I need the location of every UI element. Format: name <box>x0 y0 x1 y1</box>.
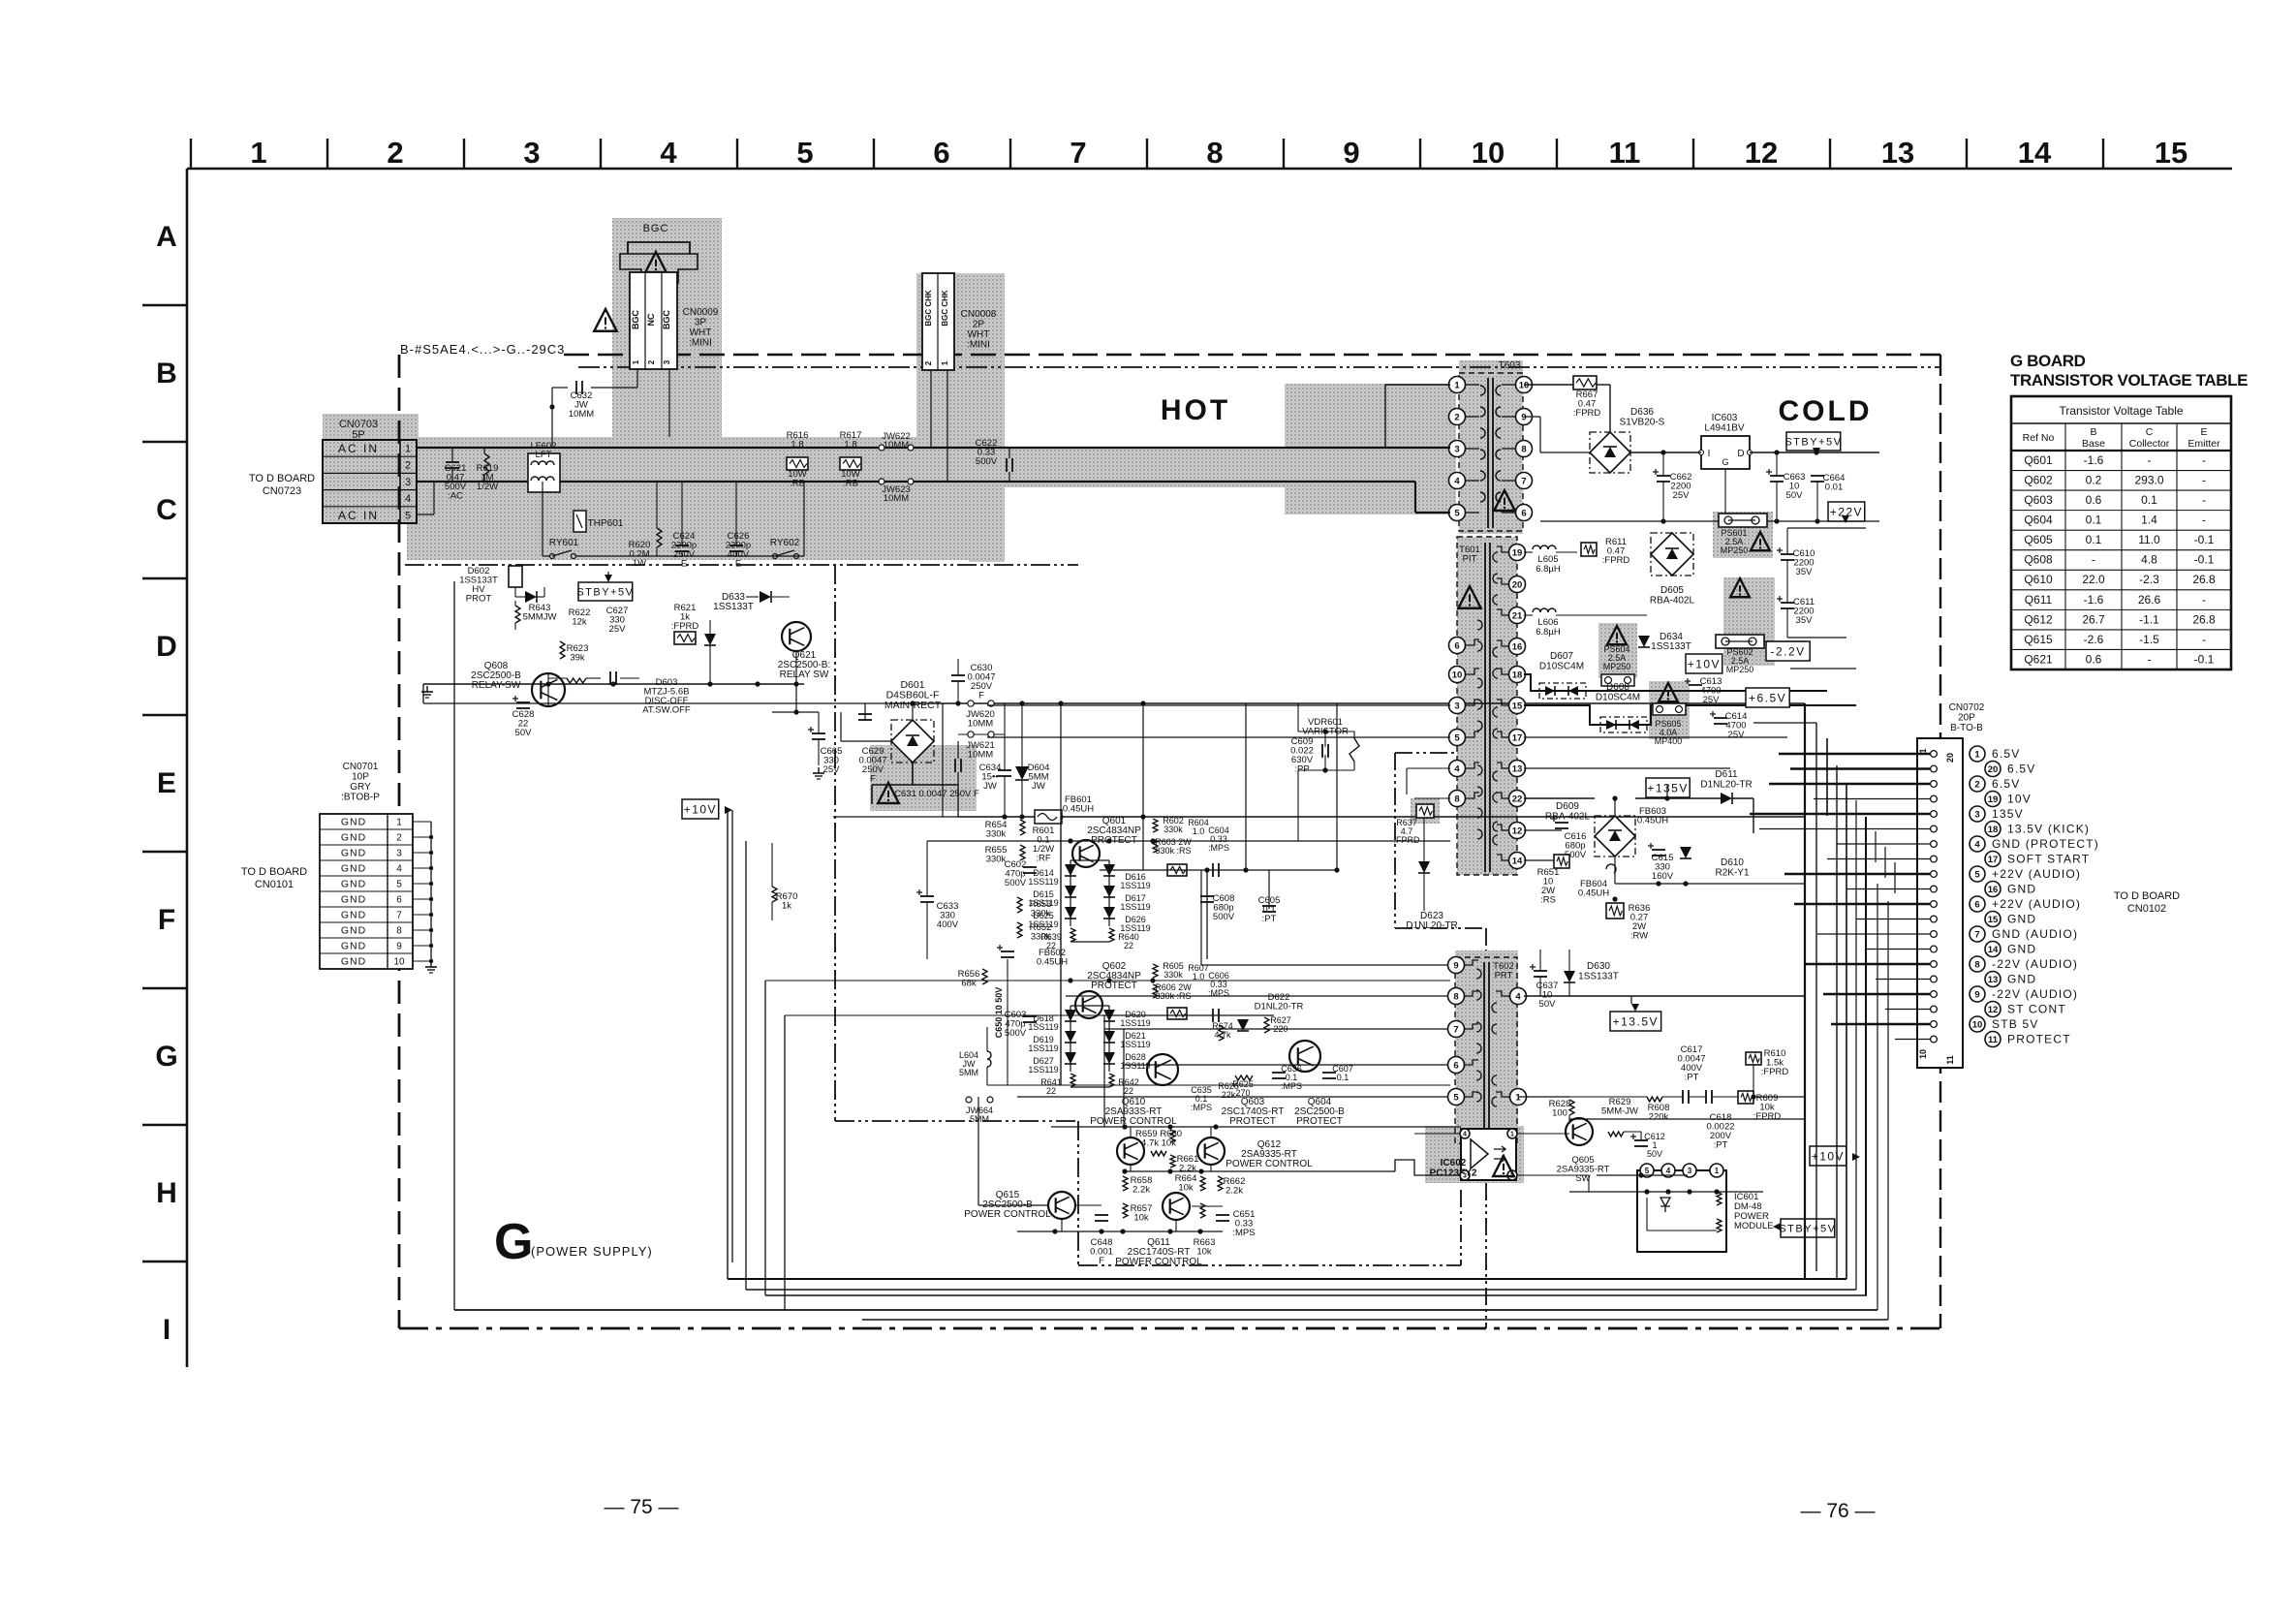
pin T601-16 <box>1509 639 1526 655</box>
warning triangle T603 <box>1494 490 1515 511</box>
svg-text:L6056.8µH: L6056.8µH <box>1536 554 1561 575</box>
svg-text:10V: 10V <box>2007 793 2032 806</box>
resistor R639 <box>1070 928 1075 942</box>
fuse PS602 <box>1716 635 1764 648</box>
svg-text:16: 16 <box>1988 885 1999 895</box>
capacitor C621 <box>446 461 459 463</box>
svg-text:10: 10 <box>1519 380 1530 390</box>
svg-text:Q610: Q610 <box>2024 573 2053 586</box>
voltage +10V bottom right <box>1810 1146 1846 1166</box>
svg-text:20: 20 <box>1512 579 1523 590</box>
svg-text:B-#S5AE4.<...>-G..-29C3: B-#S5AE4.<...>-G..-29C3 <box>400 342 565 357</box>
svg-text:GND: GND <box>341 817 366 828</box>
svg-text:11: 11 <box>1609 136 1641 170</box>
svg-text:F: F <box>158 904 175 936</box>
svg-text:5: 5 <box>396 880 402 890</box>
wire right vertical bundle <box>1805 703 1895 1320</box>
svg-text:AC IN: AC IN <box>338 442 379 455</box>
svg-text:1: 1 <box>632 359 640 364</box>
pin T603-10 <box>1516 377 1533 393</box>
svg-text:GND: GND <box>341 848 366 859</box>
svg-text:— 75 —: — 75 — <box>604 1496 678 1518</box>
pin T602-9 <box>1448 957 1465 974</box>
pin T603-5 <box>1449 505 1466 521</box>
diode D615b <box>1680 847 1691 858</box>
transistor voltage table <box>2011 396 2231 670</box>
hot area shading C631 patch <box>870 745 977 811</box>
pin T601-6 <box>1449 638 1466 654</box>
svg-text:4: 4 <box>1666 1167 1671 1175</box>
capacitor C637 <box>1534 970 1547 972</box>
svg-text:0.1: 0.1 <box>2086 533 2102 546</box>
hot area shading IC602 patch <box>1425 1126 1524 1183</box>
wire T603 primary <box>1285 385 1450 513</box>
wire T601 left pins <box>987 705 1450 798</box>
svg-text:GND: GND <box>341 879 366 890</box>
thermistor THP601 <box>574 511 586 532</box>
varistor symbol <box>1350 738 1359 762</box>
capacitor C613 <box>1689 684 1702 686</box>
capacitor C633 <box>920 895 934 897</box>
wire right horizontals <box>1753 528 1866 723</box>
svg-text:-: - <box>2148 453 2152 467</box>
pin T601-20 <box>1509 576 1526 593</box>
svg-text:1: 1 <box>405 444 411 455</box>
wire gnd row 538 <box>1540 520 1879 522</box>
resistor R659 <box>1151 1151 1166 1156</box>
resistor cluster R602-R604 <box>1153 819 1158 832</box>
svg-text:C6640.01: C6640.01 <box>1823 473 1846 493</box>
pin T601-21 <box>1509 607 1526 624</box>
jumper link BGC <box>628 242 690 254</box>
diode D630 <box>1564 971 1575 982</box>
hot area shading AC band <box>407 437 1285 560</box>
pin T603-7 <box>1516 473 1533 489</box>
svg-text:C6510.33:MPS: C6510.33:MPS <box>1232 1209 1255 1238</box>
svg-text:7: 7 <box>1521 476 1526 486</box>
pin T601-5 <box>1449 730 1466 746</box>
svg-text:19: 19 <box>1988 794 1999 805</box>
capacitor C662 <box>1657 475 1670 477</box>
hot area shading T602 column <box>1455 950 1518 1183</box>
bridge rectifier D605 <box>1651 533 1693 576</box>
svg-text:STB 5V: STB 5V <box>1992 1017 2039 1031</box>
hot area shading T601 column <box>1457 537 1517 875</box>
svg-text:-2.2V: -2.2V <box>1771 644 1806 658</box>
capacitor C626 <box>729 545 743 546</box>
svg-text:26.8: 26.8 <box>2192 573 2216 586</box>
jumper JW620 <box>968 701 974 706</box>
transistor Q611 <box>1163 1193 1190 1220</box>
jumper JW664 <box>966 1097 972 1103</box>
svg-text:3: 3 <box>523 136 540 170</box>
capacitor C614 <box>1714 717 1727 719</box>
svg-text:2: 2 <box>647 359 656 364</box>
resistor R628 <box>1569 1100 1574 1115</box>
wire control rail upper <box>1051 1126 1461 1128</box>
wire q605 bottom <box>1569 1145 1763 1195</box>
svg-text:1.4: 1.4 <box>2141 514 2157 527</box>
pin CN0702-14 GND <box>1931 946 1938 952</box>
shading PS604 patch <box>1598 623 1637 678</box>
wire pin17 rail <box>1524 736 1787 738</box>
svg-text:-1.5: -1.5 <box>2139 633 2159 646</box>
svg-text:4: 4 <box>396 864 402 875</box>
svg-text:GND: GND <box>341 925 366 937</box>
svg-text:C650 10 50V: C650 10 50V <box>994 987 1004 1039</box>
svg-text:H: H <box>156 1177 177 1209</box>
svg-text:FB6030.45UH: FB6030.45UH <box>1637 806 1668 826</box>
svg-text:6: 6 <box>396 895 402 906</box>
svg-text:GND: GND <box>341 894 366 906</box>
svg-text:JW62310MM: JW62310MM <box>882 484 911 504</box>
diode D633 <box>760 591 771 603</box>
line filter LF602 <box>528 453 560 492</box>
svg-text:17: 17 <box>1988 855 1999 865</box>
capacitor C624 <box>675 545 689 546</box>
voltage +6.5V <box>1746 688 1789 707</box>
diode D602 relay coil <box>509 566 522 587</box>
svg-text:I: I <box>1708 449 1711 459</box>
svg-text:GND: GND <box>2007 943 2036 956</box>
svg-text:18: 18 <box>1988 825 1999 835</box>
svg-text:4: 4 <box>1515 991 1521 1002</box>
svg-text:1: 1 <box>941 360 949 365</box>
capacitor C609 <box>1321 744 1323 758</box>
svg-text:-: - <box>2092 553 2095 567</box>
voltage -2.2V <box>1766 641 1810 661</box>
pin CN0702-17 SOFT START <box>1931 856 1938 862</box>
svg-text:R605330k: R605330k <box>1163 961 1184 980</box>
ground <box>430 961 432 967</box>
svg-text:BGC: BGC <box>643 223 669 234</box>
capacitor C650 <box>1007 959 1008 1085</box>
transistor Q621 <box>782 622 811 651</box>
svg-text:BGC CHK: BGC CHK <box>941 290 949 327</box>
svg-text:JW62110MM: JW62110MM <box>966 740 995 761</box>
pin T603-2 <box>1449 409 1466 425</box>
svg-text:3: 3 <box>1454 444 1459 454</box>
svg-text:7: 7 <box>396 911 402 921</box>
capacitor C610 <box>1781 553 1794 555</box>
svg-text:STBY+5V: STBY+5V <box>576 586 634 598</box>
pin CN0702-16 GND <box>1931 886 1938 892</box>
svg-text:Q612: Q612 <box>2024 612 2053 626</box>
resistor R629 <box>1608 1132 1624 1137</box>
pin CN0702-4 GND (PROTECT) <box>1931 841 1938 848</box>
svg-text:R606 2W330k :RS: R606 2W330k :RS <box>1155 982 1192 1001</box>
svg-text:Q611: Q611 <box>2025 593 2053 607</box>
wire T601 pin stubs <box>1466 546 1508 860</box>
resistor R641 <box>1070 1074 1075 1087</box>
warning triangle band <box>594 309 616 331</box>
resistor R660 <box>1170 1130 1175 1142</box>
resistor R611 <box>1581 543 1597 556</box>
power module IC601 <box>1637 1170 1726 1252</box>
wire long 1012 <box>765 980 1450 981</box>
fuse FB601 <box>1035 810 1062 824</box>
shading PS601 patch <box>1713 512 1773 558</box>
pin CN0702-11 PROTECT <box>1931 1036 1938 1043</box>
svg-text:5: 5 <box>1454 732 1460 743</box>
svg-text:4: 4 <box>1454 763 1460 774</box>
connector CN0008 <box>922 273 954 370</box>
pin T601-12 <box>1509 823 1526 839</box>
diode pair D607 <box>1539 683 1586 699</box>
pin T601-13 <box>1509 761 1526 777</box>
hot area shading BGC column <box>612 218 722 439</box>
svg-text:12: 12 <box>1745 136 1778 170</box>
wire T602 pin stubs <box>1465 960 1509 1097</box>
pin T603-8 <box>1516 441 1533 457</box>
svg-text:5: 5 <box>1453 1092 1459 1103</box>
resistor R622 <box>567 678 586 683</box>
svg-text:11: 11 <box>1988 1035 1999 1045</box>
svg-text:13: 13 <box>1988 975 1999 985</box>
capacitor C607 <box>1322 1072 1336 1074</box>
svg-text:Q602: Q602 <box>2024 474 2053 487</box>
svg-text:C: C <box>156 494 177 526</box>
svg-text:HOT: HOT <box>1161 394 1230 426</box>
pin T601-8 <box>1449 791 1466 807</box>
ground <box>818 767 820 773</box>
svg-text:— 76 —: — 76 — <box>1800 1500 1875 1522</box>
pin CN0702-2 6.5V <box>1931 781 1938 788</box>
svg-text:0.1: 0.1 <box>2141 493 2157 507</box>
shading PS605 patch <box>1649 681 1690 739</box>
svg-text:10: 10 <box>1472 136 1505 170</box>
svg-text:8: 8 <box>1453 991 1458 1002</box>
wire CN0009 pin3 drop <box>668 369 670 437</box>
resistor R621 <box>674 632 696 644</box>
resistor R616 <box>787 457 808 470</box>
resistor R655 <box>1020 845 1025 860</box>
svg-text:0.6: 0.6 <box>2086 493 2102 507</box>
wire t602 right <box>1518 1096 1569 1098</box>
pin T601-17 <box>1509 730 1526 746</box>
svg-text:10: 10 <box>1972 1019 1983 1030</box>
svg-text:-0.1: -0.1 <box>2194 533 2215 546</box>
zener D603 <box>704 634 716 645</box>
svg-text:15: 15 <box>2155 136 2187 170</box>
optocoupler IC602 <box>1461 1129 1516 1180</box>
resistor R637 <box>1416 804 1434 818</box>
capacitor C663 <box>1770 475 1784 477</box>
svg-text:G: G <box>1722 457 1728 467</box>
pin CN0702-18 13.5V (KICK) <box>1931 826 1938 832</box>
diode D634 <box>1638 636 1650 647</box>
svg-text:FB6040.45UH: FB6040.45UH <box>1578 879 1609 899</box>
svg-text:4: 4 <box>1974 839 1980 850</box>
wire CN0703 stubs <box>417 448 434 514</box>
transistor Q602 <box>1075 991 1102 1018</box>
hot area shading CN0008 drop <box>969 426 1005 562</box>
svg-text:4.8: 4.8 <box>2141 553 2157 567</box>
svg-text:Q608: Q608 <box>2024 553 2053 567</box>
capacitor C604 <box>1212 863 1214 877</box>
svg-text:22.0: 22.0 <box>2082 573 2105 586</box>
wire relay dip <box>543 482 804 556</box>
pin CN0702-3 135V <box>1931 811 1938 818</box>
svg-text:-: - <box>2148 652 2152 666</box>
transformer T603 <box>1459 373 1523 531</box>
resistor R610 <box>1746 1052 1761 1065</box>
capacitor C665 <box>812 732 825 734</box>
node BGC junction <box>549 404 554 409</box>
svg-text:3: 3 <box>405 477 411 488</box>
svg-text:7: 7 <box>1453 1024 1458 1035</box>
svg-text:-: - <box>2202 514 2206 527</box>
svg-text:8: 8 <box>396 926 402 937</box>
wire mid row long <box>987 1084 1450 1086</box>
svg-text:GND: GND <box>341 956 366 968</box>
wire control bottom rail <box>1017 1231 1223 1232</box>
resistor R662 <box>1218 1176 1223 1191</box>
wire stby rail <box>1450 385 1879 455</box>
inductor L606 <box>1533 608 1556 612</box>
svg-text:R602330k: R602330k <box>1163 816 1184 834</box>
wire q611 links <box>1075 1204 1101 1206</box>
svg-text:STBY+5V: STBY+5V <box>1784 436 1842 448</box>
pin T601-19 <box>1509 545 1526 561</box>
capacitor C634 <box>998 769 1011 771</box>
wire rect bottom <box>912 763 914 785</box>
capacitor C608 <box>1200 895 1214 897</box>
svg-text:C6060.33:MPS: C6060.33:MPS <box>1208 971 1229 998</box>
svg-text:8: 8 <box>1521 444 1526 454</box>
wire left long rails <box>423 684 1008 841</box>
hot area shading CN0703 block <box>323 414 419 524</box>
svg-text:GND: GND <box>2007 913 2036 926</box>
svg-text:4: 4 <box>1454 476 1460 486</box>
fuse PS604 <box>1601 674 1634 686</box>
resistor R664 <box>1200 1176 1205 1191</box>
ground <box>426 686 428 692</box>
pin T603-1 <box>1449 377 1466 393</box>
svg-text:10W:RB: 10W:RB <box>841 469 860 489</box>
svg-text:26.8: 26.8 <box>2192 612 2216 626</box>
wire rect left <box>841 740 891 742</box>
wire 135V rails <box>1524 785 1805 902</box>
voltage STBY+5V bottom <box>1781 1219 1835 1237</box>
transistor Q608 <box>532 673 565 706</box>
resistor R653 <box>1017 897 1022 913</box>
pin CN0702-6 +22V (AUDIO) <box>1931 901 1938 908</box>
svg-text:COLD: COLD <box>1779 395 1873 427</box>
svg-text:C608680p500V: C608680p500V <box>1213 893 1235 922</box>
pin CN0702-5 +22V (AUDIO) <box>1931 871 1938 878</box>
pin CN0702-7 GND (AUDIO) <box>1931 931 1938 938</box>
pin T601-3 <box>1449 698 1466 714</box>
diode ladder D614-D626 <box>1065 860 1115 926</box>
wire main dc rail <box>958 816 1805 818</box>
svg-text:1: 1 <box>1974 749 1980 760</box>
svg-text:RY601: RY601 <box>549 538 579 548</box>
svg-text:R6582.2k: R6582.2k <box>1131 1175 1153 1196</box>
wire CN0701 ground bus <box>413 822 433 963</box>
svg-text:R6622.2k: R6622.2k <box>1224 1176 1246 1197</box>
svg-text:6: 6 <box>933 136 949 170</box>
svg-text:1: 1 <box>396 818 402 828</box>
resistor R608 <box>1647 1097 1662 1102</box>
resistor R651 <box>1554 855 1569 868</box>
svg-text:9: 9 <box>1974 989 1979 1000</box>
hot area shading CN0008 block <box>916 273 1005 438</box>
svg-text:STBY+5V: STBY+5V <box>1779 1223 1836 1234</box>
pin T601-4 <box>1449 761 1466 777</box>
svg-text:8: 8 <box>1206 136 1223 170</box>
resistor R657 <box>1123 1203 1128 1218</box>
svg-text:15: 15 <box>1988 915 1999 925</box>
svg-text:C613470025V: C613470025V <box>1700 676 1722 705</box>
pin CN0702-15 GND <box>1931 916 1938 922</box>
svg-text:2: 2 <box>924 360 933 365</box>
svg-text:3: 3 <box>1974 809 1979 820</box>
svg-text:+10V: +10V <box>1688 657 1721 670</box>
pin T602-5 <box>1448 1089 1465 1106</box>
svg-text:135V: 135V <box>1992 807 2024 821</box>
diode pair D608 <box>1600 717 1647 732</box>
svg-text:ST CONT: ST CONT <box>2007 1003 2066 1016</box>
svg-text:L6066.8µH: L6066.8µH <box>1536 617 1561 638</box>
wire rect top <box>889 702 1805 704</box>
diode ladder D618-D628 <box>1065 1006 1115 1072</box>
svg-text:-0.1: -0.1 <box>2194 553 2215 567</box>
svg-text:2: 2 <box>1454 412 1459 422</box>
svg-text:21: 21 <box>1512 610 1523 621</box>
voltage STBY+5V top <box>1786 432 1841 451</box>
svg-text:C611220035V: C611220035V <box>1793 597 1815 626</box>
svg-text:Q621: Q621 <box>2024 652 2053 666</box>
wire control rail lower <box>1125 1170 1395 1172</box>
svg-text:+22V (AUDIO): +22V (AUDIO) <box>1992 867 2081 881</box>
pin T601-18 <box>1509 667 1526 683</box>
svg-text:I: I <box>163 1314 171 1346</box>
wire long 1048 <box>785 1014 1124 1016</box>
wire IC602 leads <box>1414 1133 1460 1135</box>
svg-text:4: 4 <box>660 136 677 170</box>
pin T603-4 <box>1449 473 1466 489</box>
shading R637 patch <box>1411 798 1440 824</box>
svg-text:-22V (AUDIO): -22V (AUDIO) <box>1992 987 2078 1001</box>
svg-text:FB6010.45UH: FB6010.45UH <box>1063 794 1094 815</box>
svg-text:3: 3 <box>663 359 671 364</box>
svg-text:BGC: BGC <box>662 310 671 330</box>
svg-text:-: - <box>2202 633 2206 646</box>
svg-text:3: 3 <box>1454 701 1459 711</box>
svg-text:15: 15 <box>1512 701 1523 711</box>
voltage +10V left <box>682 799 719 819</box>
svg-text:12: 12 <box>1988 1005 1999 1015</box>
svg-text:C6220.33500V: C6220.33500V <box>976 438 998 467</box>
capacitor C628 <box>516 701 530 703</box>
svg-text:7: 7 <box>1974 929 1979 940</box>
wire q601 row <box>1100 869 1337 871</box>
svg-text:R654330k: R654330k <box>985 820 1008 840</box>
capacitor C618 <box>1705 1090 1707 1104</box>
svg-text:BGC CHK: BGC CHK <box>924 290 933 327</box>
svg-text:GND: GND <box>341 941 366 952</box>
svg-text:Q601: Q601 <box>2024 453 2053 467</box>
svg-text:THP601: THP601 <box>588 518 624 529</box>
jumper JW623 <box>879 479 884 484</box>
svg-text:10: 10 <box>393 957 405 968</box>
svg-text:22: 22 <box>1512 794 1523 804</box>
resistor R625 <box>1235 1075 1253 1080</box>
pin T602-4 <box>1510 988 1527 1005</box>
svg-text:10: 10 <box>1452 670 1463 680</box>
transistor Q612 <box>1197 1137 1225 1165</box>
